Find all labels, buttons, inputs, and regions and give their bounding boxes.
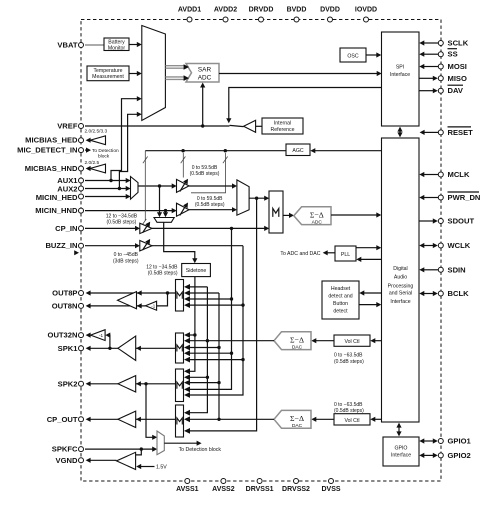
bus mux M1 to SAR ADC upper (165, 65, 184, 67)
svg-text:OUT8P: OUT8P (52, 289, 77, 298)
svg-text:Interface: Interface (390, 72, 410, 78)
svg-text:Monitor: Monitor (108, 45, 126, 51)
svg-text:OUT8N: OUT8N (52, 301, 78, 310)
svg-text:OSC: OSC (347, 53, 358, 59)
PGA3 gain arrow (143, 224, 149, 233)
svg-text:(0.5dB steps): (0.5dB steps) (107, 220, 137, 226)
pin CP_IN (79, 226, 84, 231)
SAR ADC box (186, 64, 219, 83)
inverter A2 (91, 330, 106, 341)
svg-text:SPK1: SPK1 (58, 344, 79, 353)
svg-text:block: block (98, 154, 110, 160)
wire digital to headset detect (363, 292, 382, 294)
wire PLL to digital (356, 247, 378, 249)
switch blade to internal reference (230, 125, 244, 126)
mux M2 (record path selector) (237, 180, 249, 215)
wire branch to inverter A2 (109, 335, 110, 348)
svg-text:-1: -1 (99, 333, 104, 338)
output amp SPK2 (118, 376, 136, 392)
svg-text:MISO: MISO (448, 74, 468, 83)
svg-text:PLL: PLL (341, 252, 350, 258)
MICBIAS_HED buffer triangle (90, 136, 106, 145)
pin MICIN_HND (79, 208, 84, 213)
svg-text:MICBIAS_HED: MICBIAS_HED (25, 136, 78, 145)
wire BCLK bidirectional (423, 293, 435, 295)
wire temperature measurement to mux M1 (129, 73, 139, 75)
bidirectional arrow digital to GPIO (398, 425, 400, 435)
wire mux M2 to sigma summer (249, 197, 266, 199)
wire PGA4 output (152, 245, 243, 247)
svg-text:SPK2: SPK2 (58, 379, 78, 388)
svg-text:0 to 59.5dB: 0 to 59.5dB (197, 196, 223, 202)
svg-text:Σ−Δ: Σ−Δ (310, 210, 324, 219)
wire MOSI (423, 66, 439, 68)
wire tap down to mux M4 right (165, 211, 167, 214)
svg-text:MOSI: MOSI (448, 62, 467, 71)
svg-text:(3dB steps): (3dB steps) (113, 258, 139, 264)
wire MICIN_HED to mux M3 (85, 196, 127, 198)
wire OUT32N line (88, 334, 91, 336)
svg-text:DRVSS1: DRVSS1 (246, 486, 274, 493)
battery monitor box (104, 38, 129, 51)
svg-text:To Detection: To Detection (92, 148, 119, 154)
pin AUX1 (79, 178, 84, 183)
node AGC line left drop (144, 151, 146, 221)
pin MICBIAS_HED (79, 138, 84, 143)
svg-text:AVSS2: AVSS2 (212, 486, 235, 493)
wire CP bus vertical (187, 228, 231, 389)
wire DAC2 output to summer S4 (187, 418, 274, 420)
svg-text:Reference: Reference (271, 127, 295, 133)
headset detect box (322, 281, 359, 319)
wire DAC2 bus vertical (218, 293, 220, 419)
wire OUT8N line (88, 305, 146, 307)
wire MCLK (423, 174, 439, 176)
svg-text:CP_IN: CP_IN (55, 224, 77, 233)
GPIO interface box (383, 437, 419, 466)
pin DRVSS1 (257, 479, 262, 484)
svg-text:Internal: Internal (274, 120, 291, 126)
pin MICIN_HED (79, 194, 84, 199)
svg-text:DRVSS2: DRVSS2 (282, 486, 310, 493)
VGND buffer triangle (117, 452, 136, 469)
wire mux M3 to PGA1 (138, 185, 173, 187)
wire digital to vol ctl 1 (374, 340, 382, 342)
wire WCLK bidirectional (423, 245, 435, 247)
AGC box (286, 144, 310, 156)
output amp OUT8 (118, 292, 137, 309)
svg-text:SS: SS (448, 50, 458, 59)
wire SPI to reference switch (229, 88, 382, 120)
wire SAR ADC output to SPI interface (219, 73, 378, 75)
pin GPIO2 (438, 453, 443, 458)
svg-text:BCLK: BCLK (448, 289, 470, 298)
svg-text:VREF: VREF (57, 122, 78, 131)
slash control mark (142, 219, 147, 226)
wire detection mux output (164, 442, 198, 444)
pin VREF (79, 124, 84, 129)
wire PLL to ADC and DAC (326, 252, 335, 254)
wire RESET (423, 131, 438, 133)
svg-text:AVSS1: AVSS1 (176, 486, 199, 493)
wire GPIO2 bidirectional (423, 454, 435, 456)
pin BUZZ_IN (79, 243, 84, 248)
wire sigma-delta ADC to digital (331, 214, 378, 216)
MIC_DETECT_IN arrow to detection block (85, 149, 88, 151)
wire SDOUT (419, 220, 435, 222)
svg-text:Interface: Interface (391, 453, 411, 459)
wire sigma to sigma-delta ADC (283, 214, 291, 216)
wire AGC control line (145, 150, 286, 152)
wire VREF to reference node (85, 125, 230, 127)
sigma-delta DAC1 block (274, 332, 311, 350)
wire vol ctl 2 to DAC2 (315, 418, 335, 420)
bus mux M1 to SAR ADC lower (165, 76, 184, 78)
pin AVSS2 (221, 479, 226, 484)
pin WCLK (438, 243, 443, 248)
pin SDIN (438, 267, 443, 272)
MICBIAS_HND arrow (86, 166, 91, 171)
pin VGND (79, 458, 84, 463)
pin SCLK (438, 41, 443, 46)
PGA3 triangle CP_IN (85, 227, 137, 229)
pin DAV (438, 88, 443, 93)
svg-text:GPIO: GPIO (395, 446, 408, 452)
svg-text:ADC: ADC (198, 75, 212, 82)
internal reference buffer triangle (244, 120, 256, 132)
pin RESET (438, 130, 443, 135)
wire SPKFC tap to VGND buffer (136, 449, 142, 455)
wire 1.5V reference (139, 466, 154, 468)
node tap to mux M4 (158, 184, 161, 187)
svg-text:0 to −63.5dB: 0 to −63.5dB (334, 353, 363, 359)
pin CP_OUT (79, 417, 84, 422)
mux M3 (aux input selector) (131, 177, 139, 200)
svg-text:DVDD: DVDD (320, 7, 340, 14)
pin SS (438, 52, 443, 57)
wire PGA3 to sigma summer (152, 227, 266, 229)
svg-text:detect: detect (333, 309, 348, 315)
pin GPIO1 (438, 439, 443, 444)
chip boundary dashed border (81, 20, 441, 482)
pin AVDD1 (187, 17, 192, 22)
wire digital to PLL (360, 258, 382, 260)
svg-text:DRVDD: DRVDD (249, 7, 274, 14)
summer S1 OUT8 (176, 280, 184, 312)
wire DAC1 output to summer S2 (187, 340, 274, 342)
pin VBAT (79, 43, 84, 48)
PGA4 triangle BUZZ_IN (85, 245, 137, 247)
svg-text:BVDD: BVDD (287, 7, 307, 14)
svg-text:DVSS: DVSS (321, 486, 340, 493)
svg-text:SAR: SAR (198, 66, 212, 73)
pin OUT32N (79, 333, 84, 338)
svg-text:detect and: detect and (328, 294, 352, 300)
svg-text:SDIN: SDIN (448, 265, 466, 274)
bidirectional arrow SPI to digital (399, 129, 401, 136)
svg-text:Vol Ctl: Vol Ctl (345, 339, 360, 345)
sigma-delta ADC block (294, 207, 331, 225)
PLL box (335, 246, 356, 261)
svg-text:AVDD1: AVDD1 (178, 7, 201, 14)
svg-text:12 to −34.5dB: 12 to −34.5dB (106, 214, 138, 220)
svg-text:WCLK: WCLK (448, 241, 471, 250)
pin DRVSS2 (294, 479, 299, 484)
wire digital to vol ctl 2 (374, 418, 382, 420)
svg-text:-1: -1 (151, 304, 155, 309)
svg-text:DAC: DAC (292, 345, 303, 351)
pin DVSS (329, 479, 334, 484)
svg-text:0 to −63.5dB: 0 to −63.5dB (334, 402, 363, 408)
PGA1 triangle (177, 179, 190, 192)
node mic bus tap (255, 197, 258, 200)
wire SCLK (423, 42, 439, 44)
svg-text:VGND: VGND (56, 456, 78, 465)
PGA1 gain arrow (180, 181, 187, 192)
svg-text:MICIN_HED: MICIN_HED (36, 193, 78, 202)
wire SPK1 line (88, 347, 176, 349)
svg-text:To Detection block: To Detection block (179, 447, 222, 453)
wire OUT8P line (88, 292, 176, 294)
svg-text:AGC: AGC (292, 148, 303, 154)
pin SDOUT (438, 219, 443, 224)
svg-text:GPIO1: GPIO1 (448, 437, 472, 446)
pin IOVDD (364, 17, 369, 22)
wire sidetone bus vertical (187, 277, 195, 372)
output amp SPK1 (118, 336, 136, 360)
svg-text:(0.5dB steps): (0.5dB steps) (334, 359, 364, 365)
svg-text:CP_OUT: CP_OUT (47, 415, 78, 424)
svg-text:SPKFC: SPKFC (52, 445, 78, 454)
wire PWR_DN (423, 197, 439, 199)
svg-text:BUZZ_IN: BUZZ_IN (45, 241, 77, 250)
wire mux M4 to sidetone (164, 222, 195, 260)
node AGC drop to PGA2 (224, 149, 227, 152)
pin SPK2 (79, 381, 84, 386)
wire CP_OUT line (88, 418, 176, 420)
svg-text:DAV: DAV (448, 86, 464, 95)
svg-text:2.0/2.5: 2.0/2.5 (85, 160, 100, 166)
wire DAV (419, 90, 435, 92)
wire mic bus vertical (187, 198, 256, 431)
pin AVSS1 (185, 479, 190, 484)
pin SPKFC (79, 447, 84, 452)
wire battery monitor to mux M1 (129, 44, 139, 46)
pin AVDD2 (223, 17, 228, 22)
svg-text:Σ−Δ: Σ−Δ (290, 335, 304, 344)
wire vol ctl 1 to DAC1 (315, 340, 335, 342)
digital audio processing box (382, 138, 420, 422)
svg-text:SDOUT: SDOUT (448, 217, 475, 226)
wire DAC1 bus vertical (187, 287, 207, 413)
summer S2 SPK1 (176, 333, 184, 363)
svg-text:2.0/2.5/3.3: 2.0/2.5/3.3 (85, 128, 108, 134)
pin BVDD (294, 17, 299, 22)
wire SDIN (423, 269, 439, 271)
sigma-delta DAC2 block (274, 410, 311, 428)
continuation arrow below BUZZ_IN (74, 250, 79, 255)
svg-text:(0.5dB steps): (0.5dB steps) (190, 171, 220, 177)
wire AUX2 tap to mux M1 (119, 114, 138, 188)
wire digital to AGC (314, 150, 382, 152)
svg-text:Σ−Δ: Σ−Δ (290, 414, 304, 423)
slash control mark (143, 157, 148, 164)
inverter A1 (146, 301, 157, 310)
pin MISO (438, 76, 443, 81)
wire OSC to SPI (366, 54, 378, 56)
wire VGND line (88, 459, 117, 461)
wire VREF node up into SAR ADC (202, 86, 204, 127)
svg-text:0 to −45dB: 0 to −45dB (114, 252, 139, 258)
mux M4 (sidetone source selector) (154, 218, 174, 223)
OSC box (340, 48, 366, 62)
svg-text:1.5V: 1.5V (156, 465, 167, 471)
svg-text:MICIN_HND: MICIN_HND (35, 206, 78, 215)
svg-text:OUT32N: OUT32N (48, 331, 78, 340)
pin MCLK (438, 172, 443, 177)
detection mux M5 (157, 431, 164, 455)
svg-text:MIC_DETECT_IN: MIC_DETECT_IN (17, 146, 77, 155)
svg-text:VBAT: VBAT (57, 41, 77, 50)
slash control mark (181, 157, 186, 164)
svg-text:Processing: Processing (388, 283, 414, 289)
svg-text:Interface: Interface (390, 299, 410, 305)
wire BUZZ bus vertical (187, 246, 243, 395)
svg-text:MICBIAS_HND: MICBIAS_HND (25, 164, 78, 173)
sidetone box (182, 264, 211, 277)
wire MICIN_HND to PGA2 (85, 210, 173, 212)
pin SPK1 (79, 346, 84, 351)
node CP bus tap (230, 227, 233, 230)
vol ctl 1 box (334, 335, 370, 346)
svg-text:ADC: ADC (312, 220, 323, 226)
wire tap down to mux M4 left (159, 186, 161, 214)
svg-text:(0.5dB steps): (0.5dB steps) (148, 271, 178, 277)
node VREF junction (201, 124, 204, 127)
wire PGA2 to mux M2 (189, 209, 234, 211)
wire SPKFC line (85, 448, 154, 450)
pin DVDD (328, 17, 333, 22)
pin AUX2 (79, 186, 84, 191)
svg-text:Button: Button (333, 301, 348, 307)
pin MICBIAS_HND (79, 166, 84, 171)
summer S4 CP_OUT (176, 405, 184, 437)
svg-text:Vol Ctl: Vol Ctl (345, 418, 360, 424)
svg-text:Digital: Digital (393, 266, 407, 272)
internal reference box (262, 118, 303, 134)
vol ctl 2 box (334, 414, 370, 425)
output amp CP_OUT (118, 411, 136, 427)
svg-text:12 to −34.5dB: 12 to −34.5dB (146, 264, 178, 270)
svg-text:and Serial: and Serial (389, 290, 412, 296)
svg-text:Sidetone: Sidetone (186, 268, 207, 274)
PGA4 gain arrow (143, 241, 149, 250)
wire SPK2 line (88, 383, 176, 385)
MICBIAS_HND buffer triangle (90, 164, 106, 173)
wire GPIO1 bidirectional (423, 440, 435, 442)
svg-text:AVDD2: AVDD2 (214, 7, 237, 14)
pin OUT8N (79, 303, 84, 308)
wire PGA1 to mux M2 (189, 185, 234, 187)
wire AUX2 to mux M3 (85, 188, 127, 190)
wire headset detect to digital (359, 304, 378, 306)
svg-text:SCLK: SCLK (448, 39, 469, 48)
svg-text:MCLK: MCLK (448, 170, 470, 179)
pin OUT8P (79, 291, 84, 296)
summer S3 SPK2 (176, 369, 184, 402)
svg-text:0 to 59.5dB: 0 to 59.5dB (192, 165, 218, 171)
wire AUX1 to mux M3 (85, 180, 127, 182)
PGA2 triangle (177, 203, 190, 216)
pin PWR_DN (438, 195, 443, 200)
node AGC drop to PGA1 (181, 149, 184, 152)
svg-text:PWR_DN: PWR_DN (448, 193, 481, 202)
wire AUX1 tap to mux M1 (111, 99, 139, 181)
svg-text:To ADC and DAC: To ADC and DAC (280, 251, 320, 257)
wire SPK2 tap to detection mux (146, 384, 154, 438)
mux M1 (SAR input selector) (142, 26, 166, 121)
svg-text:SPI: SPI (396, 65, 404, 71)
pin DRVDD (259, 17, 264, 22)
pin MIC_DETECT_IN (79, 148, 84, 153)
wire VBAT to battery monitor (85, 44, 104, 46)
svg-text:DAC: DAC (292, 423, 303, 429)
svg-text:(0.5dB steps): (0.5dB steps) (195, 202, 225, 208)
temperature measurement box (87, 66, 129, 81)
wire MISO (419, 77, 435, 79)
sigma summer block ADC (269, 191, 283, 233)
svg-text:IOVDD: IOVDD (355, 7, 377, 14)
node tap to mux M4 (164, 209, 167, 212)
wire buffer to internal reference box (256, 125, 262, 127)
pin BCLK (438, 291, 443, 296)
wire branch to inverter A1 (157, 293, 168, 306)
svg-text:Measurement: Measurement (92, 74, 124, 80)
pin MOSI (438, 64, 443, 69)
svg-text:RESET: RESET (448, 128, 474, 137)
svg-text:GPIO2: GPIO2 (448, 451, 471, 460)
svg-text:Audio: Audio (394, 275, 407, 281)
PGA2 gain arrow (180, 205, 187, 216)
SPI interface box (382, 32, 420, 126)
svg-text:Headset: Headset (331, 286, 351, 292)
wire SS (423, 53, 439, 55)
slash control mark (223, 157, 228, 164)
MICBIAS_HED arrow (86, 138, 91, 143)
